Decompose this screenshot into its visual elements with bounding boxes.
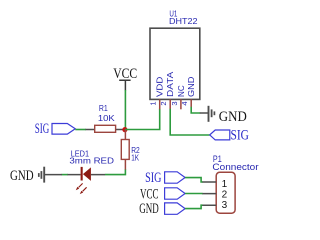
svg-text:DHT22: DHT22: [169, 17, 198, 26]
svg-text:VDD: VDD: [156, 76, 165, 97]
svg-text:Connector: Connector: [212, 162, 258, 172]
svg-text:3: 3: [170, 101, 179, 105]
pin 2 DATA: [169, 99, 171, 109]
junction dot: [122, 127, 127, 132]
svg-text:3mm RED: 3mm RED: [69, 157, 114, 166]
svg-text:2: 2: [222, 190, 228, 201]
svg-text:GND: GND: [187, 76, 196, 97]
IC U1 DHT22: [149, 9, 200, 109]
svg-text:1: 1: [222, 179, 228, 190]
svg-text:10K: 10K: [98, 114, 116, 123]
connector P1: [202, 154, 259, 213]
resistor R2: [121, 130, 140, 170]
svg-text:SIG: SIG: [231, 127, 250, 143]
svg-text:R1: R1: [99, 104, 108, 113]
net flag GND (P1 pin 3): [139, 201, 185, 217]
resistor R1: [86, 104, 124, 132]
svg-text:SIG: SIG: [35, 121, 50, 137]
pin 1 VDD: [159, 99, 161, 109]
svg-text:GND: GND: [139, 201, 159, 217]
wire VCC to P1 pin 2: [185, 193, 202, 195]
LED LED1: [68, 150, 115, 195]
wire U1 GND to ground: [191, 107, 200, 113]
pin 4 GND: [190, 99, 192, 107]
pin 3 NC: [180, 99, 182, 109]
wire GND to P1 pin 3: [185, 205, 202, 208]
supply symbol VCC: [113, 66, 137, 90]
svg-text:2: 2: [159, 101, 168, 105]
ground GND (right): [200, 106, 247, 125]
svg-text:VCC: VCC: [113, 66, 137, 82]
svg-text:GND: GND: [219, 109, 247, 125]
svg-text:DATA: DATA: [166, 71, 175, 97]
net flag VCC (P1 pin 2): [140, 186, 185, 202]
net flag SIG (left): [35, 121, 76, 137]
svg-text:4: 4: [180, 101, 189, 105]
wire ground to LED: [62, 174, 69, 176]
svg-text:GND: GND: [10, 168, 34, 184]
wire junction to U1 pin 1: [125, 109, 160, 130]
wire SIG to R1: [75, 129, 86, 131]
wire SIG to P1 pin 1: [185, 178, 202, 182]
net flag SIG (right): [210, 127, 249, 143]
wire U1 DATA to SIG flag: [170, 109, 210, 135]
wire VCC to junction: [124, 90, 126, 130]
net flag SIG (P1 pin 1): [145, 170, 185, 186]
ground GND (left): [10, 167, 62, 184]
svg-text:SIG: SIG: [145, 170, 161, 186]
svg-text:NC: NC: [177, 85, 186, 97]
svg-text:3: 3: [222, 200, 228, 211]
svg-text:1: 1: [149, 101, 158, 105]
svg-text:1K: 1K: [131, 154, 139, 163]
wire R2 to LED row: [105, 170, 126, 175]
